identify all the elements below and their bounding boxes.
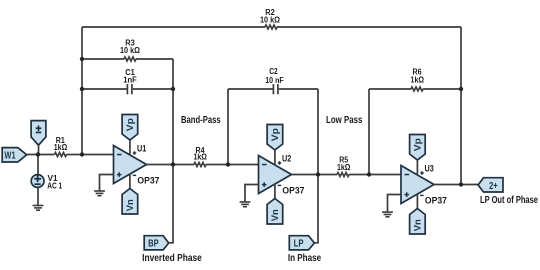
wire R3/C1 right vertical down to BP — [169, 59, 173, 243]
svg-text:OP37: OP37 — [282, 185, 304, 195]
U3 inverting input marker — [405, 174, 410, 176]
U3 negative supply marker — [420, 195, 424, 196]
junction node C1 right — [171, 87, 175, 91]
capacitor C1 — [127, 84, 131, 94]
resistor R1 — [55, 153, 67, 157]
svg-text:1kΩ: 1kΩ — [337, 162, 351, 172]
U3 non-inverting input marker — [404, 192, 409, 197]
wire Vp to U2 — [274, 150, 276, 164]
svg-text:Low Pass: Low Pass — [326, 115, 363, 126]
svg-text:Vn: Vn — [125, 199, 135, 211]
resistor R2 — [265, 25, 277, 29]
ground at U2 — [240, 201, 251, 207]
svg-text:BP: BP — [148, 239, 159, 250]
junction node U3 output — [459, 182, 463, 186]
wire plusminus tag drop — [38, 145, 40, 154]
V1 plus marker — [34, 175, 41, 182]
wire U2 to Vn — [274, 184, 276, 198]
wire R3 row left — [82, 58, 124, 60]
supply tag Vn U3 — [410, 209, 426, 235]
U2 non-inverting input marker — [262, 182, 267, 187]
wire R6 row right — [423, 88, 461, 90]
wire C2 row left — [228, 88, 273, 90]
wire C2 left vertical — [227, 89, 229, 165]
voltage source V1 — [31, 175, 44, 188]
wire U3 noninverting to ground — [388, 195, 402, 212]
tag plusminus source marker — [31, 121, 46, 146]
wire C2 right vertical down to LP — [314, 89, 318, 243]
wire V1 to ground — [37, 187, 39, 205]
svg-text:10 kΩ: 10 kΩ — [260, 15, 280, 25]
op-amp U2 — [259, 156, 292, 194]
wire left feedback vertical — [81, 27, 83, 155]
junction node W1/V1 — [36, 152, 40, 156]
wire U1 output row — [147, 164, 195, 166]
wire U1 to Vn — [129, 174, 131, 188]
port tag W1 — [2, 148, 27, 162]
svg-text:Band-Pass: Band-Pass — [181, 115, 221, 126]
wire R3 row right — [136, 58, 173, 60]
supply tag Vp U2 — [267, 125, 283, 151]
U1 inverting input marker — [117, 154, 122, 156]
wire main input row — [27, 154, 55, 156]
svg-text:Vp: Vp — [125, 118, 135, 132]
svg-text:OP37: OP37 — [425, 195, 447, 205]
wire Vp to U3 — [416, 160, 418, 174]
ground below V1 — [33, 205, 44, 211]
wire U3 output row — [434, 184, 478, 186]
svg-text:Vn: Vn — [413, 219, 423, 231]
wire top loop left segment — [82, 26, 265, 28]
U3 positive supply marker — [420, 171, 424, 175]
wire U2 output row — [292, 174, 338, 176]
wire top loop right segment — [277, 26, 461, 28]
svg-text:In Phase: In Phase — [288, 253, 322, 264]
wire R4 to U2 inverting input — [206, 164, 259, 166]
svg-text:2+: 2+ — [489, 181, 498, 192]
junction node R6 left — [367, 172, 371, 176]
svg-text:AC 1: AC 1 — [47, 181, 62, 191]
svg-text:W1: W1 — [4, 151, 16, 162]
U1 negative supply marker — [133, 175, 137, 176]
wire junction to V1 — [37, 155, 39, 175]
ground at U3 — [382, 211, 393, 217]
op-amp U3 — [401, 166, 434, 204]
port tag BP — [144, 236, 169, 250]
svg-text:LP Out of Phase: LP Out of Phase — [480, 195, 538, 206]
resistor R4 — [194, 163, 206, 167]
wire R1 to U1 inverting input — [67, 154, 114, 156]
wire U1 noninverting to ground — [100, 175, 114, 191]
svg-text:1kΩ: 1kΩ — [193, 152, 207, 162]
port tag 2+ — [478, 178, 503, 192]
wire U2 noninverting to ground — [245, 185, 259, 202]
U1 non-inverting input marker — [117, 172, 122, 177]
wire R5 to U3 inverting input — [349, 174, 401, 176]
svg-text:U3: U3 — [425, 163, 434, 173]
U1 positive supply marker — [133, 151, 137, 155]
resistor R5 — [337, 173, 349, 177]
resistor R6 — [411, 87, 423, 91]
resistor R3 — [124, 57, 136, 61]
junction node C2 left — [226, 162, 230, 166]
U2 positive supply marker — [278, 161, 282, 165]
junction node U1 inverting — [80, 152, 84, 156]
U2 inverting input marker — [262, 164, 267, 166]
wire Vp to U1 — [129, 140, 131, 154]
wire C2 row right — [279, 88, 318, 90]
wire R6 left vertical — [368, 89, 370, 175]
plusminus glyph — [36, 125, 42, 133]
supply tag Vn U2 — [267, 199, 283, 225]
port tag LP — [289, 236, 314, 250]
capacitor C2 — [273, 84, 278, 94]
svg-text:U2: U2 — [282, 153, 291, 163]
svg-text:10 nF: 10 nF — [265, 75, 284, 85]
svg-text:Inverted Phase: Inverted Phase — [142, 253, 202, 264]
V1 minus marker — [35, 183, 41, 185]
svg-text:LP: LP — [294, 239, 304, 250]
wire C1 row right — [133, 88, 173, 90]
junction node R6 right — [459, 87, 463, 91]
wire U3 to Vn — [416, 194, 418, 208]
svg-text:Vp: Vp — [413, 138, 423, 152]
wire R6 row left — [369, 88, 411, 90]
svg-text:1kΩ: 1kΩ — [54, 142, 68, 152]
svg-text:Vn: Vn — [270, 209, 280, 221]
svg-text:1nF: 1nF — [123, 75, 137, 85]
svg-text:Vp: Vp — [270, 128, 280, 142]
junction node R3 left — [80, 57, 84, 61]
junction node U2 output — [316, 172, 320, 176]
ground at U1 — [94, 190, 105, 196]
junction node C1 left — [80, 87, 84, 91]
svg-text:10 kΩ: 10 kΩ — [120, 45, 140, 55]
op-amp U1 — [114, 146, 147, 184]
supply tag Vp U1 — [122, 115, 138, 141]
svg-text:U1: U1 — [137, 143, 146, 153]
wire right vertical from top loop — [460, 27, 462, 185]
wire C1 row left — [82, 88, 127, 90]
supply tag Vn U1 — [122, 189, 138, 215]
svg-text:OP37: OP37 — [137, 175, 159, 185]
junction node U1 output — [171, 162, 175, 166]
supply tag Vp U3 — [410, 135, 426, 161]
svg-text:1kΩ: 1kΩ — [411, 74, 425, 84]
U2 negative supply marker — [278, 185, 282, 186]
